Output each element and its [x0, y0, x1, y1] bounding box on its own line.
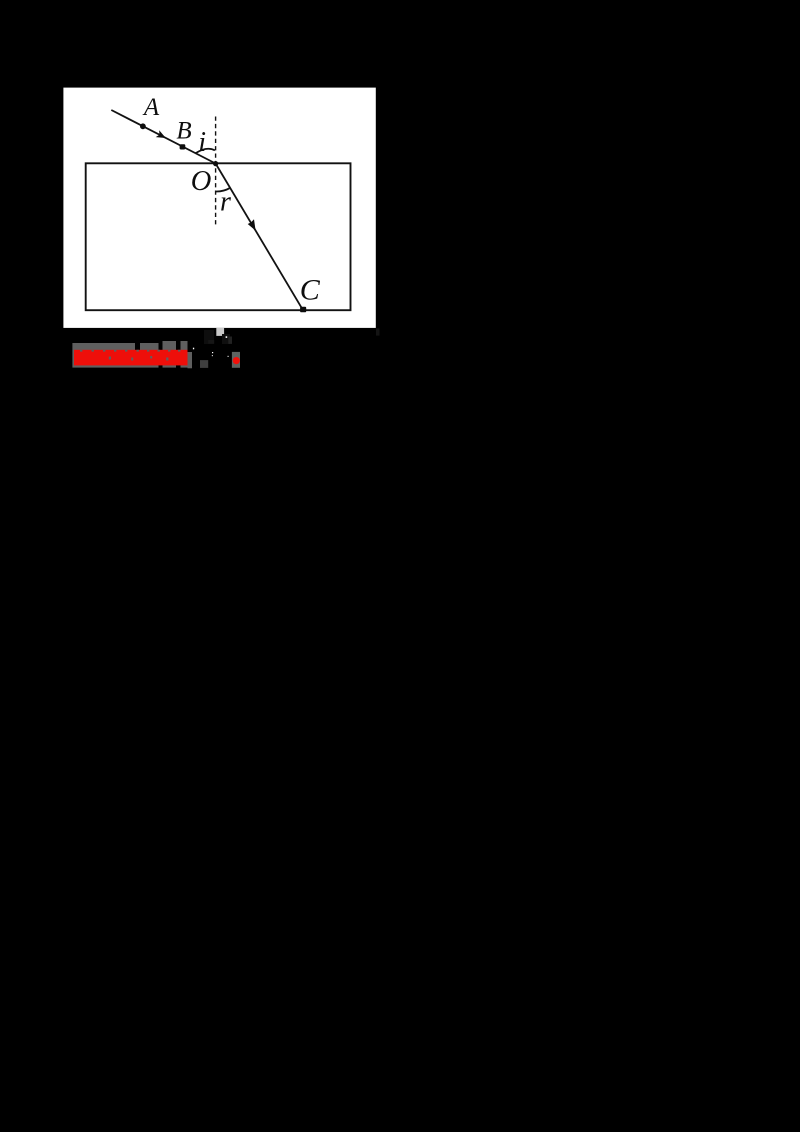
svg-text:O: O — [191, 166, 212, 197]
svg-text:i: i — [198, 127, 206, 158]
svg-text:A: A — [142, 94, 160, 121]
svg-text:C: C — [300, 273, 321, 306]
svg-text:B: B — [176, 118, 191, 145]
svg-text:r: r — [220, 186, 231, 217]
